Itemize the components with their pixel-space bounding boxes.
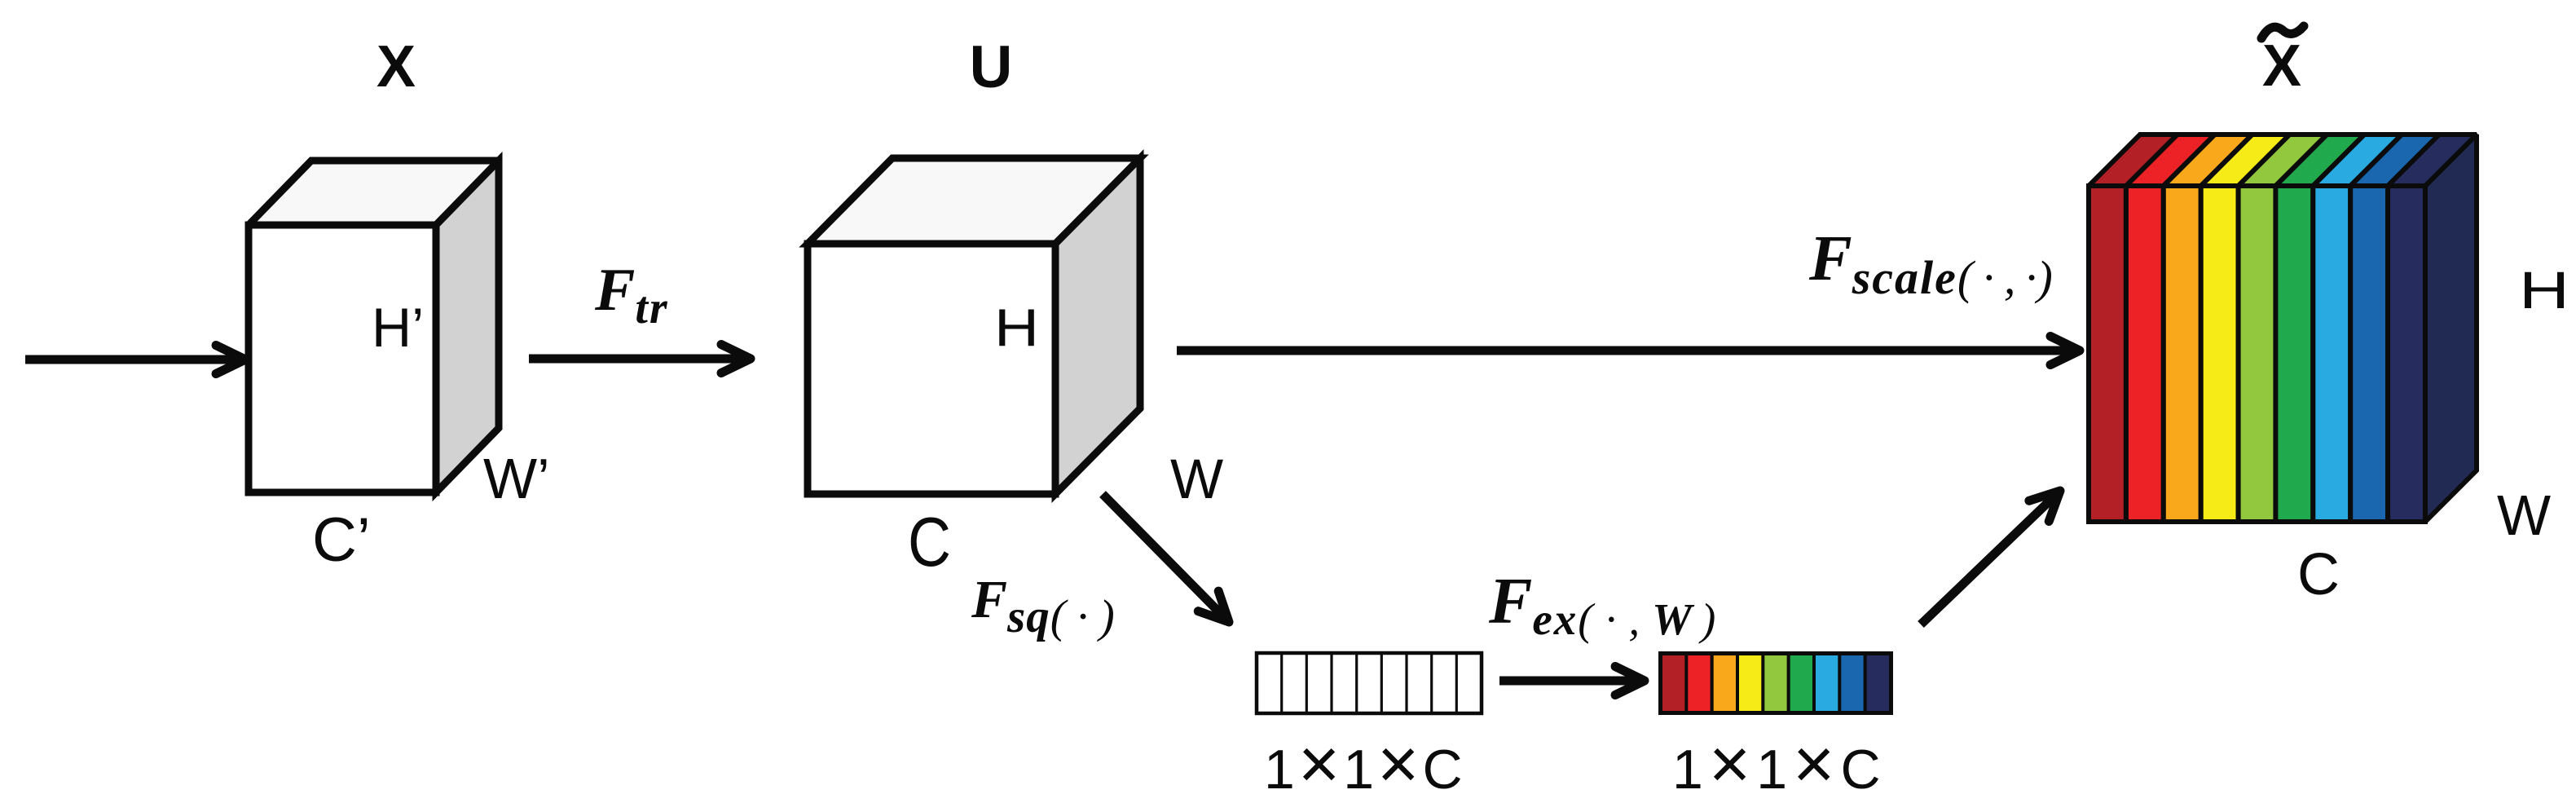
svg-text:W: W (2497, 483, 2551, 547)
svg-text:H: H (994, 298, 1039, 357)
tensor X side face (436, 161, 499, 492)
tensor Xtilde slices (2089, 135, 2477, 522)
tensor X top face (249, 161, 499, 225)
svg-text:X: X (2262, 33, 2301, 99)
svg-text:C: C (908, 504, 951, 581)
svg-text:W’: W’ (483, 447, 550, 510)
svg-text:U: U (970, 34, 1013, 100)
arrow Fex (1499, 667, 1645, 695)
svg-text:H’: H’ (372, 297, 424, 359)
tensor U front face (808, 244, 1055, 494)
input arrow (25, 346, 245, 374)
svg-text:W: W (1170, 448, 1223, 510)
tensor U top face (808, 158, 1140, 244)
white vector bar (1257, 653, 1482, 713)
arrow Ftr (529, 345, 751, 373)
tensor X front face (249, 225, 436, 492)
tensor U side face (1055, 158, 1140, 494)
colored vector bar (1658, 651, 1893, 715)
arrow Fscale (1177, 337, 2080, 365)
svg-text:X: X (376, 34, 416, 99)
svg-text:H: H (2519, 261, 2569, 320)
arrow scale-in (1921, 491, 2060, 624)
arrow Fsq (1103, 494, 1229, 622)
svg-text:C’: C’ (312, 505, 371, 575)
svg-text:C: C (2297, 542, 2340, 607)
